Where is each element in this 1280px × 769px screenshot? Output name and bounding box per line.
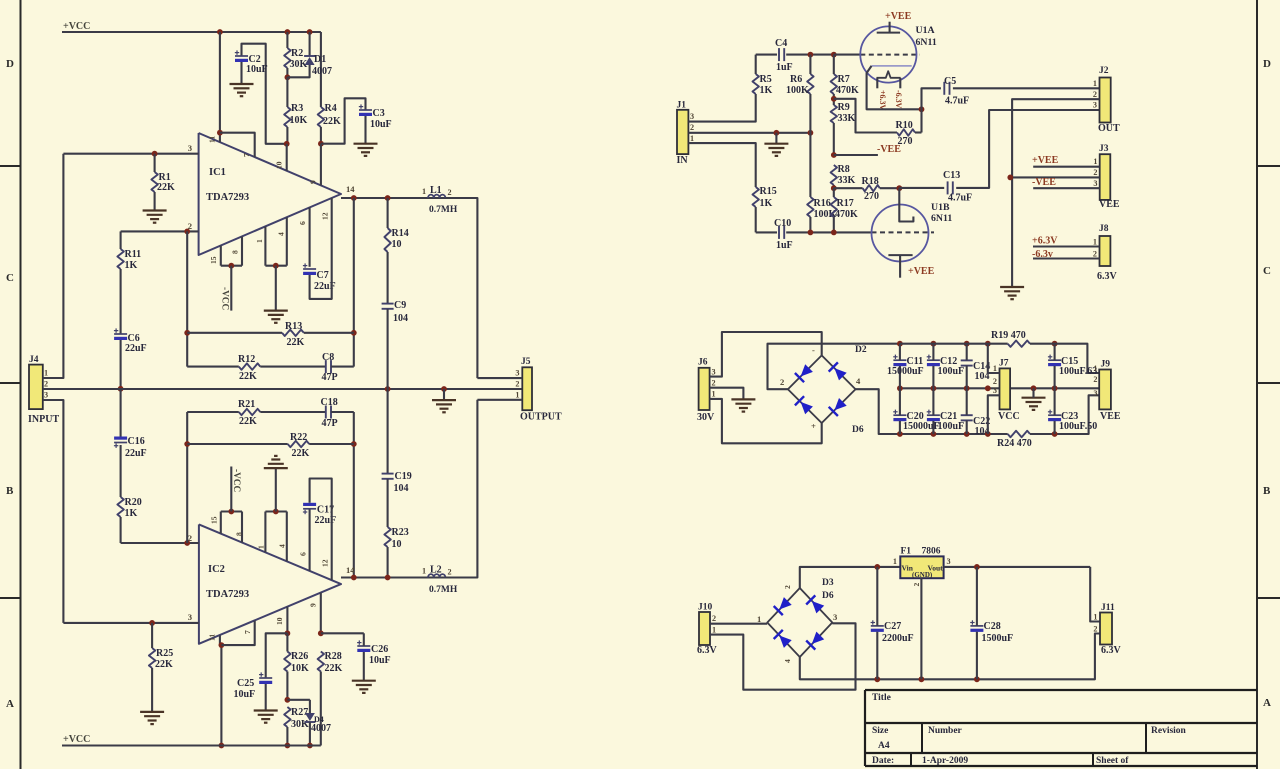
junction dot pin10 node IC2 [285,630,291,636]
svg-text:22uF: 22uF [315,515,337,526]
label C20 [907,411,924,422]
net label -VEE J3 [1032,177,1056,188]
label R10 value [898,136,913,147]
pin 10 stub IC2 [286,607,288,634]
svg-text:IC2: IC2 [208,564,225,575]
resistor R28 [318,652,324,672]
svg-text:D2: D2 [855,345,867,355]
svg-text:(GND): (GND) [912,571,933,579]
label C25 [237,678,254,689]
ground C3 [354,144,378,156]
wire L1 to J5 col [445,198,477,378]
pin 2 number J5 [515,380,519,389]
pin 8 stub IC1 [241,236,243,265]
net label -6.3v J8 [1032,249,1053,260]
net label +VCC top [63,21,90,32]
wire R6 span [809,55,811,197]
svg-text:J2: J2 [1099,66,1109,76]
wire C12 wires [932,344,934,389]
junction dot pin11 rail IC2 [219,743,225,749]
wire C25 to ground [265,684,267,711]
junction dot pin10 node [284,141,290,147]
label IC2 [208,564,225,575]
junction dot bot J7col [985,431,991,437]
svg-text:3: 3 [1093,179,1097,188]
svg-text:10uF: 10uF [234,689,256,700]
heater leg -6.3V U1A [899,78,901,89]
junction dot +VCC/R2 [285,29,291,35]
resistor R16 [807,197,813,217]
cathode lead U1A [867,66,922,109]
capacitor C7 [303,263,316,275]
label C7 value [314,281,336,292]
wire J8 pin2 stub [1033,257,1100,259]
label D4 [314,715,324,724]
capacitor C9 [382,304,394,309]
wire R11 to C6 [120,269,122,334]
junction dot top rail C15 [1052,341,1058,347]
svg-text:J8: J8 [1099,224,1109,234]
svg-text:A: A [6,698,14,710]
svg-text:4: 4 [278,544,287,548]
svg-text:-6.3v: -6.3v [1032,249,1053,260]
label C13 value [948,193,972,204]
svg-text:J10: J10 [698,603,713,613]
label C9 value [393,313,408,324]
resistor R21 [239,409,260,415]
pin 2 number J8 [1093,250,1097,259]
pin 11 stub IC2 [220,635,222,745]
label IC1 TDA7293 [206,192,249,203]
wire C26 row [321,632,364,634]
svg-text:+VEE: +VEE [908,266,935,277]
label D3 [822,578,834,588]
label C11 [907,356,924,367]
pin 7 number IC1 [242,153,251,157]
wire J1 pin1 to R15 [688,143,755,187]
pin 1 number J8 [1093,238,1097,247]
svg-text:3: 3 [1093,101,1097,110]
svg-text:J6: J6 [698,358,708,368]
pin 1 number J3 [1093,157,1097,166]
pin 4 number IC1 [277,232,286,236]
wire J4 pin1 to IC1 pin3 [43,154,64,378]
label L2 [430,565,442,576]
wire R13 row left [187,332,282,334]
label C25 value [234,689,256,700]
pin 11 number IC2 [208,634,217,641]
svg-text:1: 1 [1093,364,1097,373]
svg-text:IN: IN [677,155,689,166]
zone letter B left [6,485,14,497]
junction dot C28 bottom [974,676,980,682]
label C27 value [882,633,914,644]
label L1 pin1 [422,187,426,196]
capacitor C15 [1048,355,1061,367]
label C6 value [125,343,147,354]
bridge rectifier D3/D6 [767,588,832,657]
pin 7 link IC2 [221,621,254,646]
svg-text:1: 1 [757,614,761,624]
label VEE J3 [1099,199,1120,210]
label D6 upper bridge [852,425,864,435]
svg-text:1: 1 [712,390,716,399]
wire R7 span [833,55,835,105]
inductor L1 [428,195,477,198]
label 6.3V J11 [1101,645,1122,656]
pin 2 number J3 [1093,168,1097,177]
label L1 pin2 [448,188,452,197]
label C3 value [370,119,392,130]
label R19 value [991,330,1026,341]
wire -VCC stub IC2 [230,467,232,512]
label C16 value [125,448,147,459]
junction dot center/ground [441,386,447,392]
label Vin [902,564,914,573]
title block label Revision [1151,726,1187,736]
junction dot pin2 ground [774,130,780,136]
svg-text:+VEE: +VEE [1032,155,1059,166]
svg-text:7806: 7806 [922,547,941,557]
junction dot R22 left [184,441,190,447]
wire R2 bottom [286,68,288,77]
bridge D2 plus [811,421,816,431]
capacitor C26 [357,640,370,652]
label C28 value [982,633,1014,644]
label C22 [973,416,990,427]
junction dot pin2 IC2/feedback [184,540,190,546]
svg-text:3: 3 [993,386,997,395]
junction dot C6/center line [118,386,124,392]
svg-text:33K: 33K [838,113,856,124]
wire J2 pin2 to ground col [1012,99,1099,287]
svg-text:C10: C10 [774,218,791,229]
wire F1 gnd stem [920,578,922,679]
svg-text:2: 2 [690,123,694,132]
junction dot pin2 row/R6 col [808,130,814,136]
capacitor C6 [114,328,127,340]
ground IC1 pins 1/4 [264,311,288,323]
pin 14 wire IC1 output [341,197,477,199]
zone letter D right [1263,58,1271,70]
label U1B [931,202,950,213]
sheet border right [1256,0,1258,769]
label R9 [838,102,850,113]
label R25 [156,648,173,659]
svg-text:3: 3 [833,612,837,622]
junction dot C4/R7 [831,52,837,58]
svg-text:15000uF: 15000uF [887,366,924,377]
svg-text:J1: J1 [677,101,687,111]
pin 6 number IC1 [298,221,307,225]
ground C26 [352,681,376,693]
wire J6 pin2 to ground [710,388,744,400]
wire top rail a [900,343,1008,345]
wire R13 row right [304,332,354,334]
wire C6 to center [120,340,122,389]
wire J6 pin1 to bridge bottom [710,399,822,443]
svg-text:VCC: VCC [998,411,1020,422]
capacitor C14 [961,360,973,365]
resistor R27 [284,707,290,727]
label R24 value [997,438,1032,449]
pin 8 number IC1 [231,250,240,254]
svg-text:Number: Number [928,726,963,736]
label L1 [430,185,442,196]
net label +6.3V U1A [878,90,887,111]
pin 8 stub IC2 [241,512,243,543]
junction dot IC2 output/R23 [385,575,391,581]
label L2 pin1 [422,567,426,576]
svg-text:1K: 1K [760,85,773,96]
svg-text:3: 3 [1093,389,1097,398]
svg-text:4007: 4007 [312,66,332,77]
svg-text:D6: D6 [822,591,834,601]
capacitor C25 [259,672,272,684]
pin 3 number J1 [690,112,694,121]
label C18 [321,397,338,408]
label 6.3V J10 [697,645,718,656]
label C14 [973,361,990,372]
svg-text:470K: 470K [836,85,859,96]
junction dot C27 bottom [874,676,880,682]
wire C28 wires [976,567,978,679]
svg-text:R27: R27 [291,707,308,718]
svg-text:R19 470: R19 470 [991,330,1026,341]
wire R3 bottom [286,127,288,144]
svg-text:R3: R3 [291,103,303,114]
resistor R18 [863,185,880,191]
svg-text:2: 2 [712,614,716,623]
wire R9 bottom [833,123,835,155]
svg-text:+6.3V: +6.3V [1032,236,1058,247]
net label +VEE U1A [885,11,912,22]
bridge D2 pin 2 [780,377,784,387]
title block label Number [928,726,963,736]
pin 1 number IC1 [255,239,264,243]
svg-text:11: 11 [208,136,217,143]
pin 14 wire IC2 output [341,576,477,578]
ground IC2 pins 1/4 inverted [264,456,288,468]
label R28 [325,651,342,662]
svg-text:6N11: 6N11 [931,213,952,224]
svg-text:+VEE: +VEE [885,11,912,22]
svg-text:1K: 1K [760,198,773,209]
label R8 value [838,175,856,186]
grid dashes U1B [872,231,935,233]
wire C20 wires [899,388,901,434]
capacitor C16 [114,437,127,448]
label R20 value [125,508,138,519]
ground R1 [143,211,167,223]
pin 1 number J10 [712,626,716,635]
junction dot J3 pin2/ground col [1007,175,1013,181]
wire +VCC bottom rail [62,744,321,746]
capacitor C22 [961,415,973,420]
pin 15 stub IC1 [220,246,222,266]
junction dot cathode/C5/R10 [919,106,925,112]
svg-text:1K: 1K [125,508,138,519]
svg-text:J7: J7 [999,359,1009,369]
svg-text:10: 10 [392,239,402,250]
wire D4 bottom [309,722,311,746]
label J7 [999,359,1009,369]
svg-text:U1B: U1B [931,202,950,213]
wire J10 pin2 to bridge3 [710,623,856,689]
svg-text:10: 10 [275,617,284,625]
label R12 value [239,371,257,382]
wire bridge left to top rail [768,344,900,390]
svg-text:9: 9 [309,603,318,607]
label C26 value [369,655,391,666]
pin 3 number J3 [1093,179,1097,188]
capacitor C8 [326,360,331,373]
svg-text:1K: 1K [125,260,138,271]
label U1B 6N11 [931,213,952,224]
svg-text:1500uF: 1500uF [982,633,1014,644]
zone letter B right [1263,485,1271,497]
label R15 value [760,198,773,209]
resistor R8 [831,165,837,185]
label 30V [697,412,715,423]
zone letter A right [1263,697,1271,709]
svg-text:2: 2 [515,380,519,389]
wire J5 pin3 stub [477,377,522,379]
svg-text:C4: C4 [775,38,787,49]
svg-text:B: B [6,485,14,497]
wire R1 to ground [154,192,156,211]
bridge D3 pin 3 [833,612,837,622]
resistor R26 [284,652,290,672]
resistor R11 [117,249,123,269]
svg-text:10uF: 10uF [369,655,391,666]
wire C21 wires [932,388,934,434]
label C11 value [887,366,924,377]
label C4 value [776,62,793,73]
tube U1A envelope [860,26,916,82]
wire R18 row right [880,187,900,189]
pin 1 number F1 [893,557,897,566]
svg-text:F1: F1 [901,547,912,557]
wire R17 bottom [833,217,835,232]
diode D4 [304,713,315,722]
wire D1 bottom to R2 [287,65,309,77]
wire J8 pin1 stub [1033,245,1100,247]
label C19 value [394,483,409,494]
wire -VEE stub [834,154,878,156]
wire C15 wires [1054,344,1056,389]
label R6 [790,74,802,85]
svg-text:100uF: 100uF [938,366,965,377]
wire pins 1/4 bar IC2 [265,510,286,512]
bridge D3 pin 2 [783,585,792,589]
junction dot output/R14 [385,195,391,201]
junction dot -VCC stub IC1 [228,263,234,269]
pin 6 number IC2 [299,552,308,556]
wire -VCC stub IC1 [230,266,232,311]
junction dot C27 top [874,564,880,570]
svg-text:R26: R26 [291,651,308,662]
ground PSU mid [1022,398,1046,410]
pin 4 number IC2 [278,544,287,548]
label R23 [392,527,409,538]
label R17 value [835,209,858,220]
junction dot pin9 node IC2 [318,630,324,636]
svg-text:33K: 33K [838,175,856,186]
svg-text:1: 1 [257,545,266,549]
svg-text:4007: 4007 [311,723,331,734]
label OUTPUT [520,412,562,423]
wire R26 top [286,633,288,651]
pin 2 number J6 [712,379,716,388]
junction dot mid C14 [964,385,970,391]
junction dot output/feedback col [351,195,357,201]
svg-text:6.3V: 6.3V [697,645,718,656]
wire pins 15/8 bar IC2 [221,510,242,512]
label L2 pin2 [448,568,452,577]
wire C13 to J2 pin3 [956,110,1099,188]
ground R25 [140,712,164,724]
svg-text:22K: 22K [325,663,343,674]
pin 14 number IC1 [346,184,355,194]
net label -VEE [877,144,901,155]
junction dot pin3/R25 [149,620,155,626]
svg-text:15: 15 [210,516,219,524]
svg-text:22uF: 22uF [125,448,147,459]
svg-text:1: 1 [690,134,694,143]
label L1 value [429,205,458,215]
title block value A4 [878,741,890,751]
svg-text:104: 104 [394,483,409,494]
svg-text:C16: C16 [128,436,145,447]
net label +VEE J3 [1032,155,1059,166]
svg-text:47P: 47P [322,372,338,383]
junction dot pins1/4 IC2 [273,509,279,515]
svg-text:D: D [6,58,14,70]
junction dot top rail C11 [897,341,903,347]
label C12 [940,356,957,367]
zone letter D left [6,58,14,70]
svg-text:R18: R18 [862,176,879,187]
label R8 [838,164,850,175]
svg-text:R23: R23 [392,527,409,538]
label C19 [395,471,412,482]
pin 1 number J1 [690,134,694,143]
wire +VCC top rail [62,31,321,33]
wire D4 top [309,700,311,713]
label D1 value [312,66,332,77]
junction dot pin2/feedback [184,229,190,235]
junction dot D4/rail [307,743,313,749]
svg-text:B: B [1263,485,1271,497]
junction dot C4/R6 [808,52,814,58]
grid dashes U1A [860,54,920,56]
heater U1A [877,71,901,78]
svg-text:10K: 10K [291,663,309,674]
heater leg +6.3V U1A [876,78,878,89]
label VCC J7 [998,411,1020,422]
svg-text:6: 6 [299,552,308,556]
wire R10 link [834,99,897,133]
svg-text:A4: A4 [878,741,890,751]
wire pins1/4 to ground [275,266,277,311]
junction dot R13 right [351,330,357,336]
title block frame [865,690,1257,766]
svg-text:22K: 22K [292,448,310,459]
wire C19 to R23 [387,479,389,527]
wire top rail b [1030,344,1099,373]
connector J9 [1099,370,1111,410]
